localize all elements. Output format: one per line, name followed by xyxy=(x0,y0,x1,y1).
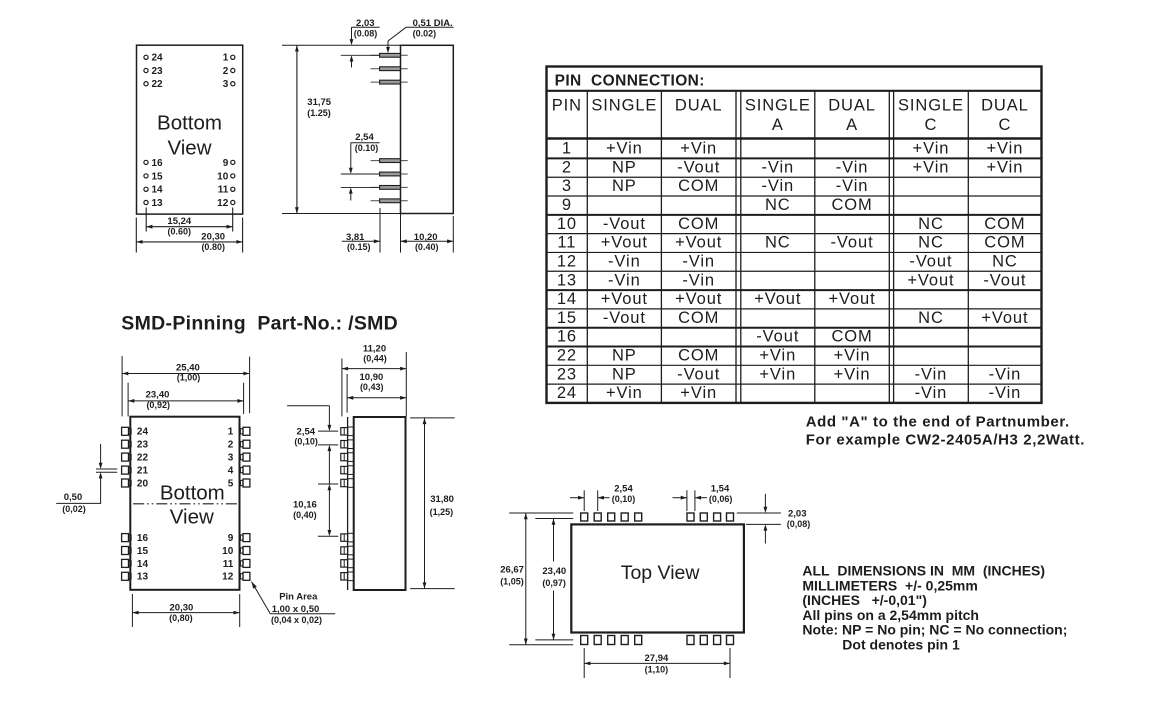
THT pin 12 (label + dot) xyxy=(217,198,235,209)
svg-text:20: 20 xyxy=(137,478,149,489)
svg-text:14: 14 xyxy=(152,185,164,196)
svg-text:Bottom: Bottom xyxy=(160,482,225,505)
top view lower pad 8 xyxy=(714,636,721,645)
SMD-Pinning heading xyxy=(121,313,398,335)
svg-text:(0.80): (0.80) xyxy=(201,242,225,252)
svg-text:-Vin: -Vin xyxy=(836,158,869,176)
general notes block xyxy=(802,563,1067,653)
svg-text:3: 3 xyxy=(223,79,229,90)
svg-text:-Vin: -Vin xyxy=(915,365,948,383)
svg-text:20,30: 20,30 xyxy=(201,232,225,243)
svg-text:22: 22 xyxy=(137,453,149,464)
svg-text:Note: NP = No pin; NC = No con: Note: NP = No pin; NC = No connection; xyxy=(802,622,1067,638)
THT side view lower extension lines xyxy=(380,208,453,253)
top view upper pad 2 xyxy=(594,513,601,521)
svg-text:-Vin: -Vin xyxy=(836,177,869,195)
dimension 27,94 (1,10) pin span width xyxy=(584,648,730,678)
svg-text:15: 15 xyxy=(152,171,164,182)
THT bottom view caption xyxy=(157,111,222,159)
svg-text:13: 13 xyxy=(557,271,577,289)
table row pin 13 xyxy=(557,271,1027,289)
SMD pin 3 (label + pad) xyxy=(228,453,250,464)
svg-text:(0,10): (0,10) xyxy=(612,494,636,504)
top view upper pad 7 xyxy=(700,513,707,521)
table row pin 14 xyxy=(557,290,876,308)
dimension 26,67 (1,05) pad span height xyxy=(500,513,573,645)
svg-text:View: View xyxy=(167,137,211,160)
svg-text:15: 15 xyxy=(557,309,577,327)
svg-text:+Vin: +Vin xyxy=(834,365,871,383)
svg-text:+Vin: +Vin xyxy=(759,365,796,383)
Pin Area callout xyxy=(252,582,336,625)
svg-text:+Vout: +Vout xyxy=(981,309,1028,327)
svg-text:15: 15 xyxy=(137,546,149,557)
dimension 2,54 (0,10) SMD pin pitch xyxy=(287,406,338,484)
svg-text:10: 10 xyxy=(222,546,234,557)
svg-text:(1,10): (1,10) xyxy=(645,665,669,675)
svg-text:2,54: 2,54 xyxy=(614,484,633,495)
svg-text:-Vin: -Vin xyxy=(608,252,641,270)
svg-text:+Vin: +Vin xyxy=(680,140,717,158)
svg-text:13: 13 xyxy=(152,198,164,209)
SMD pin 11 (label + pad) xyxy=(223,559,250,570)
svg-text:NP: NP xyxy=(612,177,637,195)
top view upper pad 3 xyxy=(608,513,615,521)
svg-text:NC: NC xyxy=(765,196,791,214)
THT side view pin bar 4 xyxy=(371,159,408,163)
svg-text:(0,92): (0,92) xyxy=(146,400,170,410)
SMD side view pin 8 xyxy=(341,559,354,568)
table row pin 2 xyxy=(562,158,1023,176)
svg-text:24: 24 xyxy=(557,384,577,402)
svg-text:(1,00): (1,00) xyxy=(177,373,201,383)
table row pin 23 xyxy=(557,365,1021,383)
pin connection table frame xyxy=(547,67,1042,403)
dimension 2,54 (0.10) pin pitch xyxy=(341,132,380,200)
pin connection table row lines xyxy=(547,158,1042,384)
svg-text:31,75: 31,75 xyxy=(307,97,331,108)
svg-text:12: 12 xyxy=(222,572,234,583)
svg-text:23: 23 xyxy=(152,66,164,77)
SMD bottom view caption xyxy=(160,482,225,529)
svg-text:(0,43): (0,43) xyxy=(360,382,384,392)
SMD side view pin 9 xyxy=(341,572,354,581)
svg-text:COM: COM xyxy=(678,215,719,233)
table title xyxy=(555,73,705,90)
THT side view pin bar 1 xyxy=(371,53,408,57)
svg-text:26,67: 26,67 xyxy=(500,564,524,575)
svg-text:(0,08): (0,08) xyxy=(787,519,811,529)
svg-text:DUAL: DUAL xyxy=(828,97,876,115)
THT pin 14 (dot + label) xyxy=(144,185,163,196)
svg-text:2: 2 xyxy=(223,66,229,77)
SMD pin 14 (pad + label) xyxy=(122,559,149,570)
svg-text:COM: COM xyxy=(831,328,872,346)
SMD side view pin 7 xyxy=(341,546,354,555)
svg-text:+Vin: +Vin xyxy=(987,140,1024,158)
table row pin 11 xyxy=(557,234,1025,252)
SMD pin 15 (pad + label) xyxy=(122,546,149,557)
svg-text:12: 12 xyxy=(557,252,577,270)
dimension 10,20 (0.40) body depth xyxy=(401,232,454,252)
table column headers xyxy=(552,97,1029,134)
svg-text:COM: COM xyxy=(984,215,1025,233)
top view upper pad 5 xyxy=(635,513,642,521)
top view lower pad 4 xyxy=(621,636,628,645)
SMD side view pin 5 xyxy=(341,479,354,488)
dimension 20,30 (0,80) SMD body width xyxy=(132,594,239,627)
svg-text:23: 23 xyxy=(137,440,149,451)
top view lower pad 5 xyxy=(635,636,642,645)
dimension 25,40 (1,00) overall width xyxy=(122,356,250,416)
table row pin 1 xyxy=(562,140,1023,158)
svg-text:(0,97): (0,97) xyxy=(542,578,566,588)
THT pin 23 (dot + label) xyxy=(144,66,163,77)
svg-text:Add "A" to the end of Partnumb: Add "A" to the end of Partnumber. xyxy=(806,413,1070,430)
svg-text:(1,25): (1,25) xyxy=(430,507,454,517)
SMD side view pin 6 xyxy=(341,533,354,542)
table row pin 16 xyxy=(557,328,873,346)
svg-text:Bottom: Bottom xyxy=(157,111,222,134)
svg-text:NC: NC xyxy=(918,234,944,252)
label 0,51 DIA (0.02) with leader xyxy=(386,18,454,53)
svg-text:All pins on a 2,54mm pitch: All pins on a 2,54mm pitch xyxy=(802,607,979,623)
svg-text:21: 21 xyxy=(137,466,149,477)
svg-text:NC: NC xyxy=(992,252,1018,270)
svg-text:14: 14 xyxy=(557,290,577,308)
svg-text:12: 12 xyxy=(217,198,229,209)
svg-text:-Vin: -Vin xyxy=(915,384,948,402)
svg-text:+Vout: +Vout xyxy=(675,234,722,252)
dimension 3,81 (0.15) pin to body xyxy=(342,232,380,252)
svg-text:NC: NC xyxy=(765,234,791,252)
THT side view pin bar 7 xyxy=(371,199,408,203)
svg-text:(0.08): (0.08) xyxy=(354,28,378,38)
SMD pin 16 (pad + label) xyxy=(122,533,149,544)
top view caption xyxy=(621,562,701,584)
svg-text:10,16: 10,16 xyxy=(293,500,317,511)
svg-text:16: 16 xyxy=(152,158,164,169)
SMD bottom view package body xyxy=(130,417,239,590)
svg-text:DUAL: DUAL xyxy=(981,97,1029,115)
svg-text:9: 9 xyxy=(223,158,229,169)
svg-text:PIN CONNECTION:: PIN CONNECTION: xyxy=(555,73,705,90)
table row pin 10 xyxy=(557,215,1026,233)
svg-text:MILLIMETERS +/- 0,25mm: MILLIMETERS +/- 0,25mm xyxy=(802,577,977,593)
svg-text:2,54: 2,54 xyxy=(355,132,374,143)
svg-text:3: 3 xyxy=(562,177,572,195)
THT pin 13 (dot + label) xyxy=(144,198,163,209)
svg-text:-Vout: -Vout xyxy=(756,328,799,346)
svg-text:16: 16 xyxy=(557,328,577,346)
svg-text:SMD-Pinning Part-No.: /SMD: SMD-Pinning Part-No.: /SMD xyxy=(121,313,398,335)
svg-text:C: C xyxy=(998,116,1011,134)
svg-text:2,03: 2,03 xyxy=(788,508,807,519)
top view package body xyxy=(571,524,744,632)
svg-text:PIN: PIN xyxy=(552,97,582,115)
svg-text:-Vout: -Vout xyxy=(677,158,720,176)
svg-text:13: 13 xyxy=(137,572,149,583)
THT side view bottom extension line xyxy=(282,213,401,215)
svg-text:+Vin: +Vin xyxy=(759,347,796,365)
svg-text:(1.25): (1.25) xyxy=(307,108,331,118)
top view lower pad 7 xyxy=(700,636,707,645)
svg-text:+Vin: +Vin xyxy=(606,384,643,402)
svg-text:+Vin: +Vin xyxy=(680,384,717,402)
SMD pin 20 (pad + label) xyxy=(122,478,149,489)
SMD pin 23 (pad + label) xyxy=(122,440,149,451)
svg-text:-Vin: -Vin xyxy=(989,365,1022,383)
svg-text:20,30: 20,30 xyxy=(170,602,194,613)
svg-text:NP: NP xyxy=(612,347,637,365)
svg-text:DUAL: DUAL xyxy=(675,97,723,115)
dimension 1,54 (0,06) top view pad xyxy=(673,484,733,512)
svg-text:A: A xyxy=(846,116,858,134)
top view lower pad 2 xyxy=(594,636,601,645)
svg-text:1: 1 xyxy=(562,140,572,158)
dimension 20,30 (0.80) body width xyxy=(136,218,242,253)
dimension 10,90 (0,43) body depth xyxy=(347,372,406,413)
SMD side view pin 3 xyxy=(341,453,354,462)
SMD side view pin 2 xyxy=(341,440,354,449)
svg-text:-Vin: -Vin xyxy=(761,158,794,176)
THT side view pin bar 6 xyxy=(371,186,408,190)
svg-text:+Vout: +Vout xyxy=(601,290,648,308)
svg-text:23: 23 xyxy=(557,365,577,383)
svg-text:-Vin: -Vin xyxy=(682,271,715,289)
svg-text:(0,80): (0,80) xyxy=(169,613,193,623)
SMD pin 1 (label + pad) xyxy=(228,427,250,438)
svg-text:(0.02): (0.02) xyxy=(413,28,437,38)
svg-text:22: 22 xyxy=(152,79,164,90)
dimension 31,80 (1,25) SMD height xyxy=(410,418,455,589)
THT pin 2 (label + dot) xyxy=(223,66,235,77)
svg-text:23,40: 23,40 xyxy=(146,390,170,401)
dimension 2,03 (0,08) pad overhang xyxy=(737,494,811,544)
svg-text:+Vout: +Vout xyxy=(828,290,875,308)
svg-text:1: 1 xyxy=(223,53,229,64)
svg-text:5: 5 xyxy=(228,478,234,489)
svg-text:24: 24 xyxy=(137,427,149,438)
THT bottom view package body xyxy=(137,45,243,214)
dimension 0,50 (0,02) pad width xyxy=(56,444,117,514)
svg-text:9: 9 xyxy=(228,533,234,544)
svg-text:9: 9 xyxy=(562,196,572,214)
svg-text:3: 3 xyxy=(228,453,234,464)
svg-text:27,94: 27,94 xyxy=(645,653,669,664)
svg-text:+Vin: +Vin xyxy=(913,140,950,158)
svg-text:-Vout: -Vout xyxy=(983,271,1026,289)
svg-text:SINGLE: SINGLE xyxy=(898,97,964,115)
svg-text:-Vin: -Vin xyxy=(989,384,1022,402)
svg-text:COM: COM xyxy=(678,347,719,365)
svg-text:-Vout: -Vout xyxy=(909,252,952,270)
SMD bottom view center dash-dot line xyxy=(133,503,237,505)
THT pin 9 (label + dot) xyxy=(223,158,235,169)
top view lower pad 6 xyxy=(687,636,694,645)
svg-text:1: 1 xyxy=(228,427,234,438)
svg-text:Dot denotes pin 1: Dot denotes pin 1 xyxy=(842,637,960,653)
THT pin 1 (label + dot) xyxy=(223,53,235,64)
SMD pin 22 (pad + label) xyxy=(122,453,149,464)
svg-text:(0.10): (0.10) xyxy=(355,143,379,153)
svg-text:(0,06): (0,06) xyxy=(709,494,733,504)
svg-text:ALL DIMENSIONS IN MM (INCHE: ALL DIMENSIONS IN MM (INCHES) xyxy=(802,563,1045,579)
table row pin 15 xyxy=(557,309,1029,327)
table row pin 3 xyxy=(562,177,869,195)
svg-text:-Vin: -Vin xyxy=(608,271,641,289)
SMD side view pin 4 xyxy=(341,466,354,475)
THT pin 16 (dot + label) xyxy=(144,158,163,169)
svg-text:-Vout: -Vout xyxy=(603,215,646,233)
svg-text:COM: COM xyxy=(678,309,719,327)
svg-text:A: A xyxy=(772,116,784,134)
table row pin 24 xyxy=(557,384,1021,402)
svg-text:Top View: Top View xyxy=(621,562,701,584)
table row pin 22 xyxy=(557,347,871,365)
svg-text:0,50: 0,50 xyxy=(64,492,83,503)
svg-text:+Vin: +Vin xyxy=(913,158,950,176)
top view lower pad 9 xyxy=(727,636,734,645)
THT side view package body xyxy=(401,45,454,213)
svg-text:11: 11 xyxy=(218,185,229,196)
dimension 23,40 (0,92) body+pad width xyxy=(128,383,244,417)
top view upper pad 4 xyxy=(621,513,628,521)
svg-text:COM: COM xyxy=(678,177,719,195)
svg-text:SINGLE: SINGLE xyxy=(745,97,811,115)
SMD side view pin 1 xyxy=(341,427,354,436)
SMD pin 4 (label + pad) xyxy=(228,466,250,477)
svg-text:NP: NP xyxy=(612,158,637,176)
dimension 2,54 (0,10) top view pitch xyxy=(570,484,635,512)
top view upper pad 6 xyxy=(687,513,694,521)
svg-text:10: 10 xyxy=(557,215,577,233)
dimension 23,40 (0,97) pad centre height xyxy=(535,519,573,640)
svg-text:-Vin: -Vin xyxy=(682,252,715,270)
svg-text:C: C xyxy=(925,116,938,134)
svg-text:22: 22 xyxy=(557,347,577,365)
svg-text:(0,40): (0,40) xyxy=(293,510,317,520)
THT pin 24 (dot + label) xyxy=(144,53,163,64)
svg-text:+Vout: +Vout xyxy=(601,234,648,252)
svg-text:(0,44): (0,44) xyxy=(363,353,387,363)
THT side view pin bar 2 xyxy=(371,67,408,71)
SMD pin 2 (label + pad) xyxy=(228,440,250,451)
SMD pin 5 (label + pad) xyxy=(228,478,250,489)
svg-text:+Vin: +Vin xyxy=(834,347,871,365)
top view lower pad 3 xyxy=(608,636,615,645)
svg-text:11: 11 xyxy=(223,559,234,570)
svg-text:(0.15): (0.15) xyxy=(347,242,371,252)
svg-text:+Vout: +Vout xyxy=(907,271,954,289)
svg-text:NC: NC xyxy=(918,215,944,233)
dimension 15,24 (0.60) pin row span xyxy=(146,208,233,237)
svg-text:NC: NC xyxy=(918,309,944,327)
svg-text:1,54: 1,54 xyxy=(711,484,730,495)
THT pin 11 (label + dot) xyxy=(218,185,235,196)
svg-text:(0.60): (0.60) xyxy=(168,226,192,236)
SMD pin 10 (label + pad) xyxy=(222,546,250,557)
top view upper pad 9 xyxy=(727,513,734,521)
svg-text:(0,10): (0,10) xyxy=(294,436,318,446)
top view upper pad 1 xyxy=(581,513,588,521)
svg-text:-Vout: -Vout xyxy=(677,365,720,383)
svg-text:(0,02): (0,02) xyxy=(62,504,86,514)
svg-text:14: 14 xyxy=(137,559,149,570)
THT side view top extension line xyxy=(282,44,401,46)
svg-text:31,80: 31,80 xyxy=(430,494,454,505)
SMD pin 9 (label + pad) xyxy=(228,533,250,544)
THT side view pin bar 3 xyxy=(371,80,408,84)
SMD side view pin strip line xyxy=(347,417,349,590)
pin connection table column lines xyxy=(587,91,968,403)
dimension 31,75 (1.25) body height xyxy=(295,45,332,213)
svg-text:+Vout: +Vout xyxy=(675,290,722,308)
svg-text:11: 11 xyxy=(557,234,576,252)
THT pin 15 (dot + label) xyxy=(144,171,163,182)
svg-text:Pin Area: Pin Area xyxy=(279,592,318,603)
svg-text:2: 2 xyxy=(562,158,572,176)
svg-text:NP: NP xyxy=(612,365,637,383)
svg-text:For example CW2-2405A/H3 2,2Wa: For example CW2-2405A/H3 2,2Watt. xyxy=(806,431,1085,448)
svg-text:+Vin: +Vin xyxy=(987,158,1024,176)
svg-text:16: 16 xyxy=(137,533,149,544)
svg-text:(0,04 x 0,02): (0,04 x 0,02) xyxy=(271,615,322,625)
THT pin 10 (label + dot) xyxy=(217,171,235,182)
THT pin 3 (label + dot) xyxy=(223,79,235,90)
SMD pin 24 (pad + label) xyxy=(122,427,149,438)
svg-text:2: 2 xyxy=(228,440,234,451)
svg-text:COM: COM xyxy=(831,196,872,214)
note add A to partnumber xyxy=(806,413,1085,448)
SMD side view package body xyxy=(354,417,406,590)
svg-text:-Vin: -Vin xyxy=(761,177,794,195)
svg-text:-Vout: -Vout xyxy=(831,234,874,252)
svg-text:(1,05): (1,05) xyxy=(500,576,524,586)
SMD pin 21 (pad + label) xyxy=(122,466,149,477)
THT side view pin bar 5 xyxy=(371,172,408,176)
top view lower pad 1 xyxy=(581,636,588,645)
svg-text:SINGLE: SINGLE xyxy=(591,97,657,115)
SMD pin 13 (pad + label) xyxy=(122,572,149,583)
dimension 10,16 (0,40) pin group span xyxy=(293,484,338,536)
SMD pin 12 (label + pad) xyxy=(222,572,250,583)
svg-text:(0.40): (0.40) xyxy=(415,242,439,252)
svg-text:+Vout: +Vout xyxy=(754,290,801,308)
svg-text:23,40: 23,40 xyxy=(542,566,566,577)
THT pin 22 (dot + label) xyxy=(144,79,163,90)
svg-text:4: 4 xyxy=(228,466,234,477)
svg-text:View: View xyxy=(170,506,214,529)
svg-text:+Vin: +Vin xyxy=(606,140,643,158)
dimension 2,03 (0.08) first pin offset xyxy=(341,18,380,68)
table row pin 12 xyxy=(557,252,1018,270)
svg-text:(INCHES +/-0,01"): (INCHES +/-0,01") xyxy=(802,592,927,608)
svg-text:COM: COM xyxy=(984,234,1025,252)
table row pin 9 xyxy=(562,196,873,214)
svg-text:10: 10 xyxy=(217,171,229,182)
dimension 11,20 (0,44) overall depth xyxy=(342,343,406,416)
top view upper pad 8 xyxy=(714,513,721,521)
svg-text:-Vout: -Vout xyxy=(603,309,646,327)
svg-text:24: 24 xyxy=(152,53,164,64)
